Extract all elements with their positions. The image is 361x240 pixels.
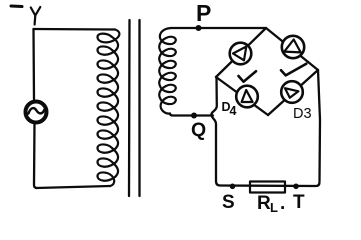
secondary winding L2 [159,28,176,114]
svg-text:Q: Q [191,119,206,141]
bridge edge bottom-right [268,70,318,115]
node label Y [31,7,41,25]
node T dot [293,184,299,190]
svg-text:L: L [270,200,278,215]
svg-text:4: 4 [230,104,237,118]
wire top rail primary [34,28,116,31]
svg-text:D3: D3 [293,106,312,122]
wire left vertical lower [34,124,37,189]
AC source G1 [26,102,47,123]
bridge edge top-right [266,28,318,70]
diode D1 top-left [230,43,252,65]
wire left vertex down to bottom rail [211,77,220,186]
transformer core [128,20,131,196]
wire secondary bottom to Q junction [170,114,213,116]
diode D4 bottom-left [236,86,258,108]
node Q dot [191,113,197,119]
svg-text:R: R [257,193,271,214]
bridge edge top-left [216,28,266,77]
wire right vertex down to bottom rail [318,70,320,181]
bridge edge bottom-left [216,77,268,115]
wire bottom rail load [220,182,320,186]
svg-text:T: T [293,192,305,213]
resistor RL [250,182,285,193]
svg-text:S: S [222,192,235,213]
node S dot [230,184,236,190]
wire secondary top to bridge [171,27,265,29]
node P dot [196,25,202,31]
diode D3 bottom-right [281,81,303,103]
diode D2 top-right [282,36,304,58]
checkmark right [281,64,306,76]
checkmark left [239,71,257,82]
wire bottom rail primary [36,186,110,188]
primary winding L1 [98,30,120,187]
wire left vertical upper [32,29,35,101]
svg-text:P: P [196,0,211,26]
stray dash mark top-left [11,5,22,9]
svg-text:.: . [280,193,285,214]
